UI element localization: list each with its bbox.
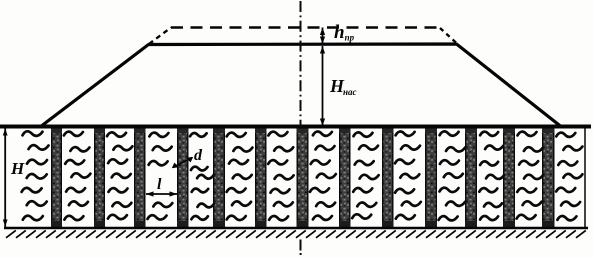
- bedrock hatching below soil: [6, 230, 586, 237]
- l spacing dimension: [146, 191, 177, 196]
- svg-text:H: H: [10, 159, 25, 178]
- drain column 8: [339, 128, 351, 227]
- soil wavy marks gap 7: [268, 132, 293, 221]
- soil wavy marks gap 8: [310, 132, 336, 220]
- drain column 13: [542, 128, 555, 227]
- svg-text:d: d: [194, 147, 203, 164]
- drain column 3: [134, 128, 146, 227]
- surcharge outline (dashed) right slope: [440, 28, 457, 44]
- drain column 5: [213, 128, 225, 227]
- centerline (dash-dot axis): [300, 1, 302, 255]
- soil wavy marks gap 6: [227, 133, 253, 220]
- drain column 2: [94, 128, 105, 227]
- drain column 11: [465, 128, 477, 227]
- soil wavy marks gap 14: [556, 133, 582, 221]
- soil wavy marks gap 11: [439, 131, 465, 220]
- drain column 10: [425, 128, 437, 227]
- drain column 6: [255, 128, 267, 227]
- soil wavy marks gap 13: [517, 132, 543, 220]
- soil wavy marks gap 1: [22, 131, 49, 220]
- soil wavy marks gap 3: [107, 132, 132, 219]
- soil left border / H dimension line: [3, 127, 8, 229]
- soil wavy marks gap 9: [352, 132, 378, 218]
- surcharge outline (dashed) top: [171, 26, 440, 29]
- dimension line h_pr: [320, 28, 325, 45]
- drain column 7: [297, 128, 309, 227]
- soil wavy marks gap 4: [148, 133, 173, 220]
- ground surface line: [0, 125, 591, 129]
- soil wavy marks gap 5: [190, 133, 214, 220]
- svg-text:l: l: [157, 176, 162, 193]
- surcharge outline (dashed) left slope: [149, 28, 171, 45]
- drain column 12: [503, 128, 515, 227]
- soil right border: [584, 127, 586, 229]
- drain column 9: [382, 128, 394, 227]
- d diameter arrow: [172, 157, 193, 168]
- drain column 4: [177, 128, 189, 227]
- soil wavy marks gap 2: [64, 132, 91, 221]
- soil wavy marks gap 12: [479, 132, 504, 220]
- soil layer bottom line: [4, 227, 588, 230]
- soil wavy marks gap 10: [395, 132, 421, 220]
- embankment outline (solid): [40, 44, 561, 127]
- dimension line H_nas: [320, 46, 325, 126]
- drain column 1: [51, 128, 62, 227]
